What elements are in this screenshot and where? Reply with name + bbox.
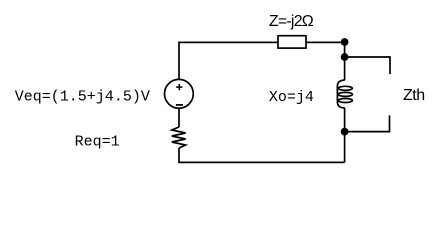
wire resistor to bottom rail (179, 148, 345, 162)
svg-text:Zth: Zth (403, 87, 425, 104)
wire inductor to node C (344, 108, 346, 162)
wire Zth bottom terminal (345, 115, 390, 131)
voltage source minus sign (176, 104, 183, 106)
svg-text:Z=-j2Ω: Z=-j2Ω (269, 13, 314, 30)
resistor Req zigzag (172, 127, 186, 148)
wire top-left from source to impedance box (179, 42, 278, 79)
voltage source U1 circle (165, 79, 194, 108)
voltage source plus sign (176, 84, 182, 90)
svg-text:Xo=j4: Xo=j4 (269, 89, 314, 106)
wire Zth top terminal (345, 57, 390, 74)
wire source to resistor (178, 108, 180, 127)
svg-text:Veq=(1.5+j4.5)V: Veq=(1.5+j4.5)V (15, 89, 150, 106)
node A junction dot (341, 38, 349, 46)
inductor Xo coil (337, 80, 344, 108)
impedance box Z (278, 36, 306, 48)
svg-text:Req=1: Req=1 (75, 133, 120, 150)
node B junction dot (341, 53, 349, 61)
node C junction dot (341, 128, 349, 136)
wire right vertical top segment (344, 42, 346, 80)
wire from impedance box to node A (306, 41, 345, 43)
